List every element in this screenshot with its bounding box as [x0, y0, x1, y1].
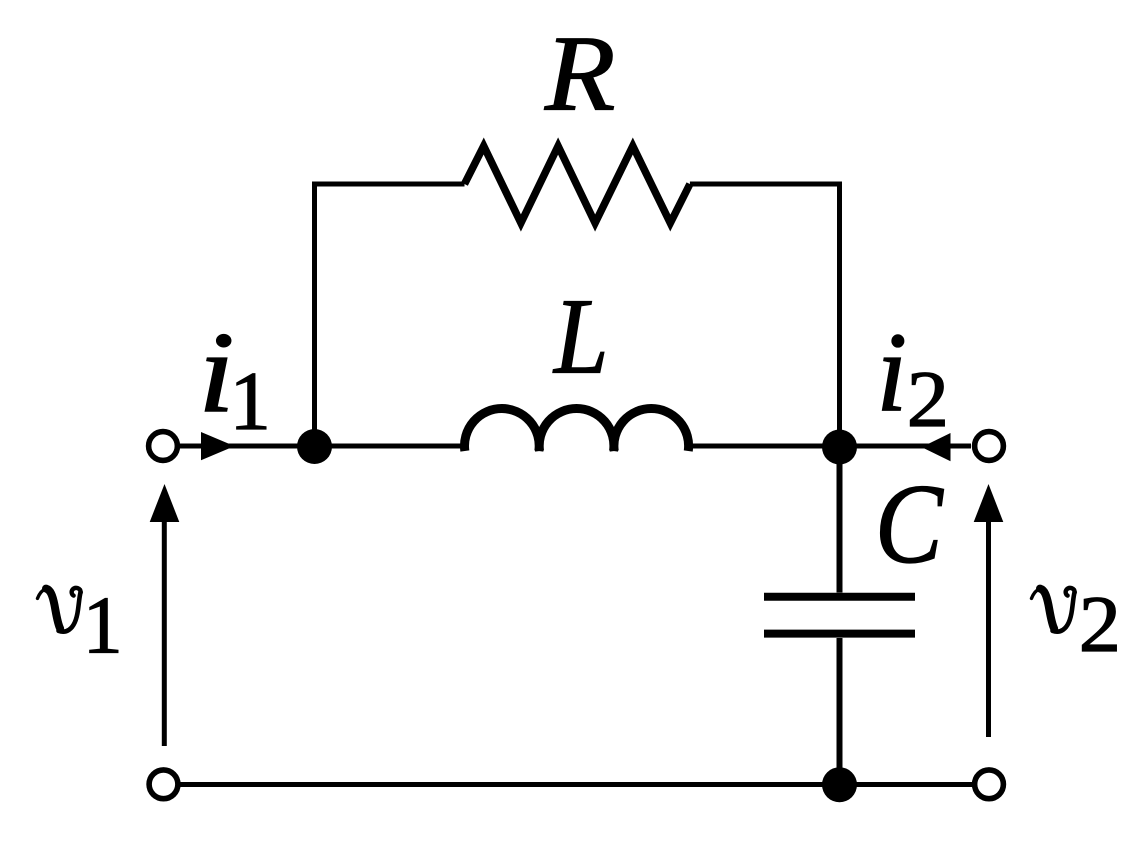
svg-text:L: L	[552, 277, 608, 396]
svg-text:2: 2	[1079, 580, 1121, 669]
svg-text:i: i	[876, 310, 907, 436]
svg-text:2: 2	[907, 355, 949, 444]
svg-text:C: C	[875, 462, 944, 587]
svg-text:1: 1	[83, 581, 123, 671]
svg-text:1: 1	[229, 355, 270, 447]
svg-text:R: R	[544, 15, 615, 134]
